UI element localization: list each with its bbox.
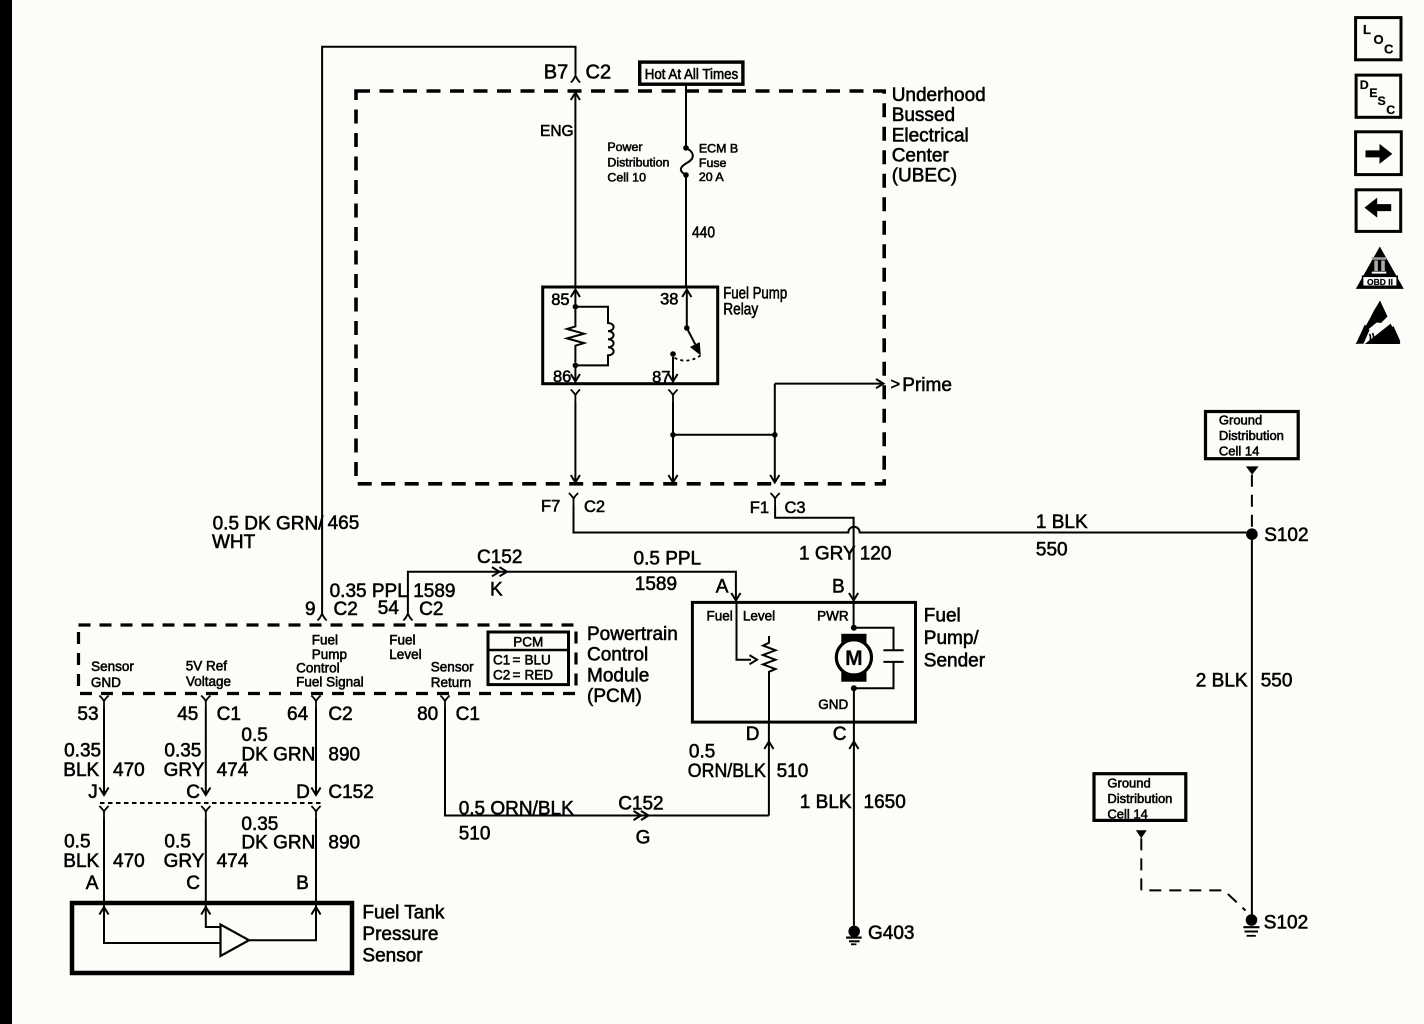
svg-text:510: 510: [459, 824, 491, 845]
svg-text:Sender: Sender: [924, 651, 986, 672]
svg-text:GRY: GRY: [164, 760, 205, 781]
svg-text:1 BLK: 1 BLK: [1036, 512, 1088, 533]
svg-text:85: 85: [551, 291, 569, 309]
svg-text:53: 53: [77, 704, 98, 725]
svg-text:S: S: [1378, 94, 1386, 108]
svg-text:0.5 PPL: 0.5 PPL: [634, 549, 702, 570]
svg-text:F7: F7: [541, 498, 560, 516]
svg-text:Level: Level: [743, 608, 775, 623]
svg-text:Fuel: Fuel: [924, 606, 961, 627]
svg-text:80: 80: [417, 704, 438, 725]
svg-text:DK GRN: DK GRN: [241, 745, 315, 766]
svg-text:Level: Level: [389, 647, 421, 662]
svg-text:GND: GND: [818, 697, 848, 712]
svg-text:1 GRY: 1 GRY: [799, 544, 856, 565]
svg-text:38: 38: [660, 291, 678, 309]
svg-text:>: >: [891, 375, 901, 393]
svg-text:470: 470: [113, 851, 145, 872]
svg-text:120: 120: [860, 544, 892, 565]
svg-text:0.35: 0.35: [64, 741, 101, 762]
svg-text:Ground: Ground: [1219, 413, 1262, 428]
svg-text:GND: GND: [91, 675, 121, 690]
svg-text:890: 890: [328, 833, 360, 854]
svg-text:45: 45: [177, 704, 198, 725]
svg-text:ORN/BLK: ORN/BLK: [688, 761, 766, 782]
svg-text:Sensor: Sensor: [431, 659, 474, 674]
svg-text:BLK: BLK: [63, 851, 99, 872]
svg-text:0.5: 0.5: [689, 741, 715, 762]
svg-text:A: A: [86, 873, 99, 894]
svg-text:Fuel Signal: Fuel Signal: [296, 675, 364, 690]
svg-text:Fuel: Fuel: [389, 633, 415, 648]
svg-text:Fuse: Fuse: [699, 156, 727, 170]
svg-text:550: 550: [1261, 671, 1293, 692]
svg-text:BLU: BLU: [525, 653, 551, 668]
svg-text:C2: C2: [586, 62, 612, 84]
svg-text:C2: C2: [334, 599, 358, 620]
svg-text:=: =: [513, 653, 521, 668]
svg-text:C1: C1: [217, 704, 241, 725]
svg-text:D: D: [746, 724, 760, 745]
svg-text:Distribution: Distribution: [607, 156, 669, 170]
svg-text:0.35: 0.35: [164, 741, 201, 762]
svg-text:C: C: [833, 724, 847, 745]
svg-text:Pump/: Pump/: [924, 628, 980, 649]
svg-text:G: G: [636, 828, 651, 849]
svg-text:C2: C2: [584, 498, 605, 516]
svg-text:Distribution: Distribution: [1107, 791, 1172, 806]
svg-text:C2: C2: [419, 599, 443, 620]
svg-text:Cell 14: Cell 14: [1107, 807, 1147, 822]
svg-text:Center: Center: [892, 146, 950, 167]
svg-text:1650: 1650: [864, 792, 906, 813]
svg-text:0.5 ORN/BLK: 0.5 ORN/BLK: [459, 799, 574, 820]
svg-text:K: K: [490, 580, 503, 601]
svg-text:F1: F1: [750, 499, 769, 517]
svg-text:470: 470: [113, 760, 145, 781]
svg-text:Control: Control: [296, 661, 340, 676]
svg-text:D: D: [296, 782, 310, 803]
svg-text:Fuel: Fuel: [312, 633, 338, 648]
svg-text:L: L: [1363, 22, 1371, 37]
svg-text:C1: C1: [493, 653, 510, 668]
svg-text:BLK: BLK: [63, 760, 99, 781]
svg-text:Power: Power: [607, 140, 642, 154]
svg-text:B: B: [832, 576, 845, 597]
svg-text:C: C: [1384, 42, 1394, 57]
svg-text:A: A: [716, 576, 729, 597]
svg-text:54: 54: [378, 598, 400, 619]
svg-text:Ground: Ground: [1107, 776, 1150, 791]
svg-text:474: 474: [217, 851, 249, 872]
svg-text:0.5: 0.5: [241, 725, 267, 746]
svg-text:Bussed: Bussed: [892, 105, 955, 126]
svg-text:440: 440: [692, 225, 715, 242]
svg-text:2 BLK: 2 BLK: [1196, 671, 1248, 692]
svg-text:550: 550: [1036, 540, 1068, 561]
svg-text:C: C: [186, 782, 200, 803]
svg-text:20 A: 20 A: [699, 170, 725, 184]
svg-text:1589: 1589: [635, 574, 677, 595]
svg-text:Voltage: Voltage: [186, 674, 231, 689]
svg-text:86: 86: [553, 368, 571, 386]
svg-text:C2: C2: [493, 668, 510, 683]
svg-text:5V Ref: 5V Ref: [186, 658, 228, 673]
svg-text:GRY: GRY: [164, 851, 205, 872]
svg-text:PCM: PCM: [513, 635, 543, 650]
svg-text:C3: C3: [785, 499, 806, 517]
svg-text:Electrical: Electrical: [892, 125, 969, 146]
svg-text:M: M: [845, 647, 863, 670]
svg-text:C152: C152: [477, 547, 522, 568]
svg-text:C: C: [186, 873, 200, 894]
svg-text:Cell 10: Cell 10: [607, 171, 646, 185]
svg-text:Sensor: Sensor: [91, 659, 134, 674]
svg-text:C: C: [1386, 103, 1395, 117]
svg-text:S102: S102: [1264, 913, 1308, 934]
svg-text:B7: B7: [544, 62, 568, 84]
svg-text:Relay: Relay: [723, 300, 759, 318]
svg-text:Pressure: Pressure: [362, 924, 438, 945]
svg-text:G403: G403: [868, 923, 914, 944]
svg-text:Fuel: Fuel: [707, 608, 733, 623]
svg-text:C152: C152: [618, 794, 663, 815]
svg-text:Cell 14: Cell 14: [1219, 444, 1259, 459]
svg-text:Underhood: Underhood: [892, 85, 986, 106]
svg-text:Control: Control: [587, 645, 648, 666]
svg-text:D: D: [1360, 78, 1369, 92]
svg-text:Fuel Tank: Fuel Tank: [362, 903, 445, 924]
svg-text:B: B: [296, 873, 309, 894]
svg-text:PWR: PWR: [817, 608, 849, 623]
svg-text:890: 890: [328, 745, 360, 766]
svg-text:=: =: [513, 668, 521, 683]
svg-text:WHT: WHT: [212, 532, 256, 553]
svg-text:ENG: ENG: [540, 123, 574, 140]
svg-text:0.5: 0.5: [64, 832, 90, 853]
svg-text:(PCM): (PCM): [587, 686, 642, 707]
svg-text:Powertrain: Powertrain: [587, 624, 678, 645]
svg-text:C1: C1: [456, 704, 480, 725]
svg-text:O: O: [1374, 32, 1384, 47]
svg-text:9: 9: [305, 599, 316, 620]
svg-text:Hot At All Times: Hot At All Times: [645, 67, 739, 83]
svg-text:ECM B: ECM B: [699, 141, 738, 155]
svg-text:OBD II: OBD II: [1367, 277, 1393, 287]
svg-text:Module: Module: [587, 665, 649, 686]
svg-text:C2: C2: [328, 704, 352, 725]
svg-text:Return: Return: [431, 675, 472, 690]
svg-text:J: J: [88, 782, 98, 803]
svg-text:DK GRN: DK GRN: [241, 833, 315, 854]
svg-text:465: 465: [328, 513, 360, 534]
svg-text:64: 64: [287, 704, 309, 725]
svg-text:Distribution: Distribution: [1219, 428, 1284, 443]
svg-text:87: 87: [652, 369, 670, 387]
svg-text:E: E: [1369, 86, 1377, 100]
svg-text:1 BLK: 1 BLK: [800, 792, 852, 813]
svg-text:RED: RED: [525, 668, 554, 683]
svg-text:510: 510: [777, 761, 809, 782]
svg-text:C152: C152: [328, 782, 373, 803]
svg-text:(UBEC): (UBEC): [892, 166, 957, 187]
svg-text:Prime: Prime: [902, 375, 952, 396]
svg-text:S102: S102: [1264, 525, 1308, 546]
svg-text:Sensor: Sensor: [362, 946, 423, 967]
svg-text:0.5: 0.5: [164, 832, 190, 853]
